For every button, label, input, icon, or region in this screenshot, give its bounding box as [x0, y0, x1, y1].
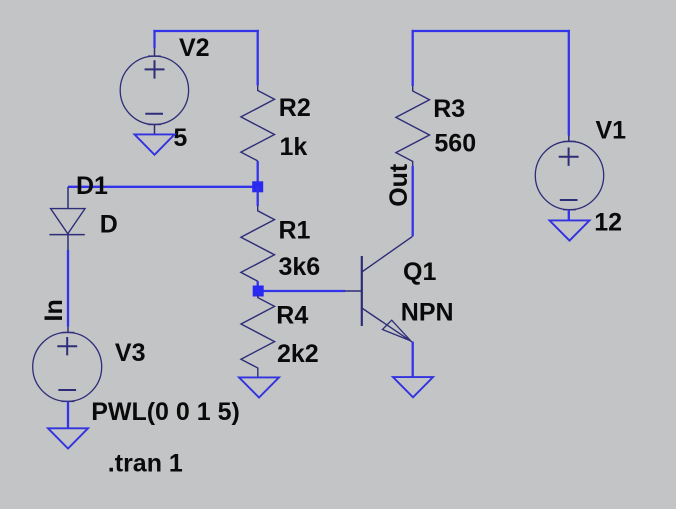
voltage source V3: [33, 327, 240, 427]
wire right net top horizontal: [412, 30, 570, 32]
svg-text:.tran 1: .tran 1: [108, 450, 183, 478]
svg-text:5: 5: [173, 124, 187, 152]
resistor R1: [241, 192, 320, 281]
resistor R2: [241, 86, 311, 161]
wire R2 top vertical: [257, 30, 259, 86]
svg-text:Q1: Q1: [403, 258, 436, 286]
svg-text:3k6: 3k6: [279, 253, 321, 281]
wire Q1 emitter to ground: [412, 342, 414, 378]
wire D1 to V3: [67, 250, 69, 327]
svg-text:PWL(0 0 1 5): PWL(0 0 1 5): [91, 398, 240, 426]
voltage source V2: [120, 34, 209, 152]
diode D1: [49, 172, 117, 250]
wire D1 net horizontal: [68, 186, 258, 188]
ground (Q1): [393, 377, 433, 397]
svg-text:Out: Out: [385, 163, 413, 207]
wire R3 bottom to Q1 collector: [412, 166, 414, 236]
transistor Q1: [345, 236, 454, 342]
svg-text:NPN: NPN: [401, 299, 454, 327]
ground (V2): [135, 125, 175, 155]
wire base net horizontal: [258, 290, 346, 292]
wire V2 top to R2 top (horizontal): [153, 30, 259, 32]
svg-text:In: In: [40, 299, 68, 321]
svg-text:V3: V3: [115, 339, 146, 367]
resistor R4: [241, 295, 319, 377]
node junction J1: [252, 181, 263, 192]
svg-text:1k: 1k: [280, 133, 308, 161]
wire R1 bottom to junction J2: [257, 281, 259, 291]
svg-text:R1: R1: [279, 217, 311, 245]
node junction J2: [253, 286, 264, 297]
svg-text:2k2: 2k2: [277, 340, 319, 368]
svg-text:V2: V2: [179, 34, 210, 62]
svg-text:560: 560: [434, 129, 476, 157]
ground (V3): [48, 401, 88, 448]
wire R1 top stub: [257, 187, 259, 206]
wire R2 bottom to junction: [257, 161, 259, 187]
svg-text:D1: D1: [76, 172, 108, 200]
svg-text:V1: V1: [596, 117, 627, 145]
svg-text:R3: R3: [433, 95, 465, 123]
ground (R4): [239, 377, 279, 397]
svg-text:12: 12: [594, 209, 622, 237]
wire R3 top vertical: [412, 30, 414, 86]
svg-text:R4: R4: [276, 302, 308, 330]
wire V1 top vertical: [568, 30, 570, 136]
ground (V1): [550, 210, 590, 241]
svg-text:D: D: [100, 210, 118, 238]
voltage source V1: [535, 117, 626, 237]
wire V2 top vertical stub: [153, 30, 155, 48]
resistor R3: [396, 86, 476, 166]
svg-text:R2: R2: [279, 94, 311, 122]
